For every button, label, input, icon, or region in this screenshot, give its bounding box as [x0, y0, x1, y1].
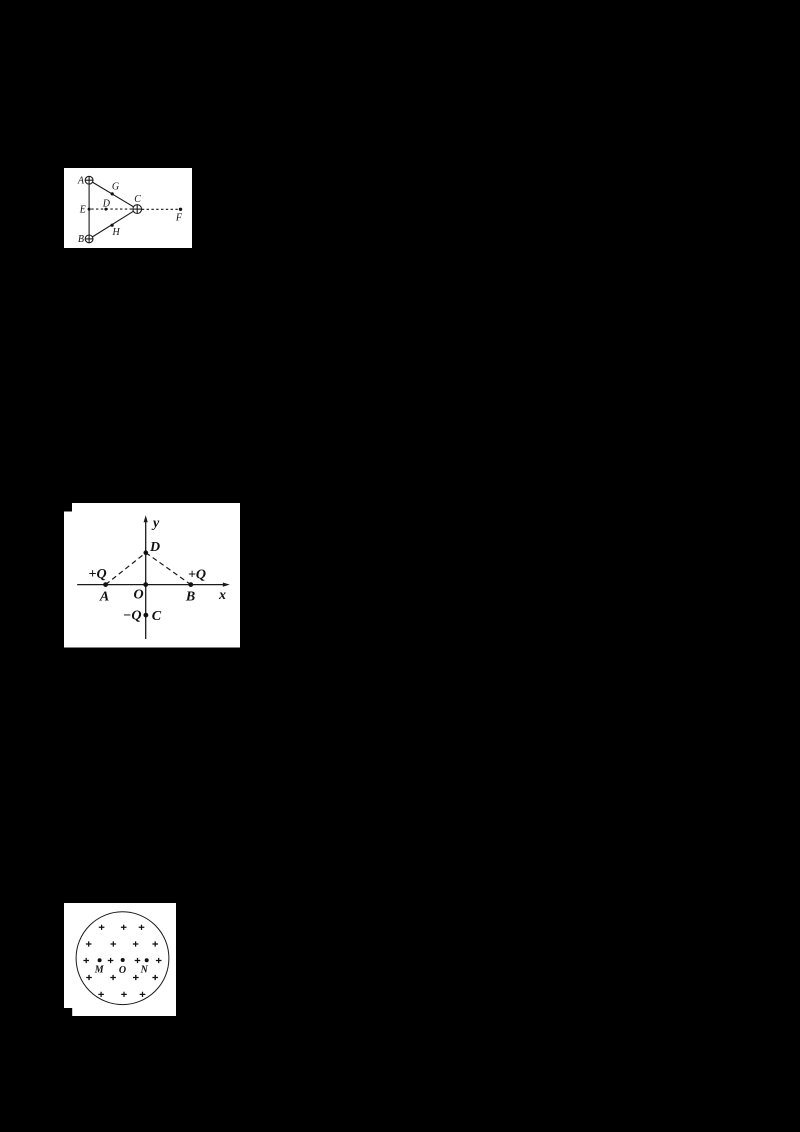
field boundary circle: [76, 912, 169, 1005]
wire A-C: [92, 182, 133, 207]
dashed line A-D: [106, 553, 146, 585]
node O (origin dot): [143, 583, 148, 588]
y-axis arrowhead: [144, 516, 148, 523]
x-axis arrowhead: [223, 583, 230, 587]
charge C (circled plus): [133, 204, 142, 213]
figure 3: circular magnetic-field region with + symbols, points M,O,N: [64, 903, 176, 1016]
black notch bottom-left: [64, 1008, 72, 1016]
svg-text:x: x: [218, 588, 226, 603]
svg-text:B: B: [78, 234, 84, 245]
white panel: [64, 168, 192, 249]
field + marks row 4: [86, 975, 158, 980]
svg-text:N: N: [139, 965, 148, 976]
svg-text:C: C: [152, 609, 162, 624]
figure 2: charges +Q at A and B on x-axis, -Q at C, point D on y-axis: [64, 503, 240, 648]
charge B dot: [188, 583, 193, 588]
charge B (circled plus): [85, 235, 93, 243]
dashed line D-B: [146, 553, 191, 585]
charge A (circled plus): [85, 176, 93, 184]
black notch top-left: [64, 503, 72, 512]
node E: [88, 207, 91, 210]
dashed line C to F: [142, 208, 179, 210]
field + marks row 2: [86, 941, 158, 946]
node F: [179, 207, 182, 210]
node G: [111, 192, 114, 195]
svg-text:E: E: [79, 204, 86, 215]
svg-text:A: A: [99, 590, 109, 605]
white panel: [64, 903, 176, 1016]
svg-text:O: O: [119, 965, 126, 976]
figure 1: three positive charges A,B,C with points E,D,G,H,F: [64, 168, 192, 249]
dashed line E to C: [91, 208, 133, 210]
field + marks row 1: [99, 925, 144, 930]
node D dot: [144, 551, 149, 556]
charge A dot: [103, 583, 108, 588]
node D: [104, 207, 107, 210]
node O dot: [120, 958, 124, 962]
svg-text:A: A: [77, 175, 85, 186]
field + marks row 5: [98, 992, 145, 997]
svg-text:+Q: +Q: [188, 568, 206, 583]
svg-text:H: H: [111, 226, 120, 237]
node N dot: [144, 958, 148, 962]
svg-text:M: M: [94, 965, 105, 976]
svg-text:C: C: [134, 193, 141, 204]
y-axis: [145, 519, 147, 640]
node H: [111, 223, 114, 226]
wire A-B: [88, 184, 90, 235]
svg-text:D: D: [102, 198, 111, 209]
svg-text:−Q: −Q: [123, 609, 142, 624]
svg-text:O: O: [133, 588, 143, 603]
wire B-C: [92, 211, 133, 237]
x-axis: [77, 584, 226, 586]
svg-text:B: B: [185, 590, 195, 605]
svg-text:y: y: [151, 516, 160, 531]
svg-text:F: F: [175, 212, 183, 223]
svg-text:+Q: +Q: [89, 568, 107, 583]
svg-text:G: G: [112, 181, 119, 192]
svg-text:D: D: [149, 540, 160, 555]
node M dot: [97, 958, 101, 962]
field + marks row 3: [83, 958, 161, 963]
charge C dot: [144, 613, 149, 618]
white panel: [64, 503, 240, 648]
